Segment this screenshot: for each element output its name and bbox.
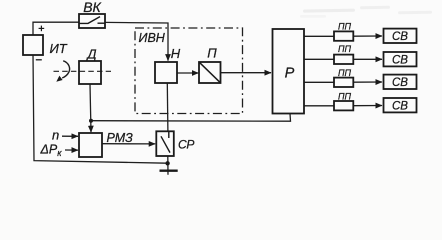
svg-text:ВК: ВК: [83, 0, 101, 15]
diagonal inside П: [200, 63, 221, 83]
wire input dPk: [65, 149, 78, 151]
block Д: [79, 61, 101, 84]
block ПП1: [334, 31, 353, 40]
wire СР to ground: [167, 156, 169, 175]
svg-text:СР: СР: [178, 138, 194, 152]
paper background: [0, 0, 442, 179]
wire Н bottom to СР top: [166, 84, 169, 132]
svg-text:n: n: [52, 128, 59, 143]
svg-text:ИВН: ИВН: [139, 31, 166, 45]
wire Р to ПП4: [305, 105, 335, 107]
svg-text:СВ: СВ: [392, 31, 408, 43]
plus sign near ИТ: [39, 26, 45, 32]
block СВ1: [384, 29, 417, 43]
block СВ2: [384, 52, 417, 66]
switch symbol inside ВК: [80, 17, 105, 24]
svg-text:ПП: ПП: [338, 68, 352, 78]
svg-text:ИТ: ИТ: [50, 41, 68, 56]
svg-text:СВ: СВ: [392, 54, 408, 66]
wire Д bottom down to node A then arrow into РМЗ: [90, 84, 91, 132]
block СР: [156, 131, 174, 156]
wire input n: [62, 135, 78, 137]
block Н: [155, 62, 177, 83]
node ground junction dot: [165, 161, 169, 165]
block ПП3: [334, 78, 353, 87]
block ИТ: [23, 35, 43, 55]
block ВК: [79, 14, 105, 28]
block ПП2: [334, 55, 353, 64]
wire П to Р: [221, 72, 271, 74]
block СВ4: [384, 98, 417, 112]
svg-text:РМЗ: РМЗ: [107, 131, 134, 145]
block РМЗ: [79, 133, 102, 157]
wire ИТ top to ВК to Н: [33, 22, 79, 36]
rotation arrow at Д shaft: [62, 61, 69, 78]
box ИВН (dash-dot frame): [135, 28, 243, 114]
wire ИТ bottom to bottom bus to СР ground node: [33, 54, 168, 163]
ground: [160, 169, 178, 171]
wire ПП2 to СВ2: [353, 58, 382, 60]
block П: [199, 62, 221, 83]
contact symbol inside СР: [161, 132, 170, 153]
svg-text:Н: Н: [171, 46, 181, 61]
wire Р to ПП1: [305, 35, 335, 37]
node A junction dot: [89, 119, 93, 123]
svg-text:ПП: ПП: [338, 21, 352, 31]
wire ПП3 to СВ3: [353, 81, 382, 83]
minus sign near ИТ: [36, 59, 42, 61]
dashed rotation axis of Д: [54, 70, 112, 72]
svg-text:СВ: СВ: [392, 77, 408, 89]
wire РМЗ to СР: [102, 143, 155, 145]
wire Р to ПП2: [305, 58, 335, 60]
block СВ3: [384, 75, 417, 89]
svg-text:Р: Р: [285, 65, 295, 81]
wire Р to ПП3: [305, 81, 335, 83]
wire ПП4 to СВ4: [353, 105, 382, 107]
wire Н to П: [178, 72, 199, 74]
svg-text:СВ: СВ: [392, 100, 408, 112]
svg-text:ПП: ПП: [338, 44, 352, 54]
svg-text:ПП: ПП: [338, 91, 352, 101]
block ПП4: [334, 101, 353, 110]
wire ПП1 to СВ1: [353, 35, 382, 37]
block Р: [273, 29, 305, 114]
svg-text:П: П: [207, 46, 217, 61]
svg-text:Д: Д: [85, 46, 96, 61]
wire feedback Р bottom to node A: [91, 114, 291, 122]
